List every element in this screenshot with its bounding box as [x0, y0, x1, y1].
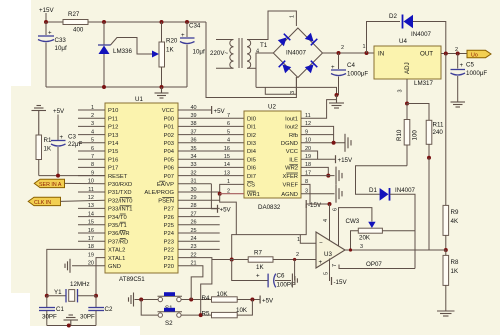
bottom-left white margin	[0, 326, 140, 335]
svg-text:P06: P06	[164, 166, 174, 172]
svg-text:30: 30	[190, 187, 196, 193]
svg-text:IN4007: IN4007	[395, 187, 416, 194]
svg-text:25: 25	[190, 228, 196, 234]
resistor R27	[63, 11, 88, 34]
svg-text:RESET: RESET	[108, 174, 128, 180]
svg-text:GND: GND	[108, 264, 121, 270]
svg-text:16: 16	[224, 146, 230, 152]
svg-text:P10: P10	[108, 108, 118, 114]
svg-text:P25: P25	[164, 223, 174, 229]
svg-text:24: 24	[190, 236, 196, 242]
svg-text:7: 7	[332, 264, 338, 267]
U1 right pin stubs and numbers	[178, 105, 244, 267]
wire +V drop to bridge bottom	[206, 22, 296, 98]
svg-text:C34: C34	[189, 23, 201, 30]
svg-text:6: 6	[227, 121, 230, 127]
svg-text:1: 1	[91, 105, 94, 111]
svg-text:32: 32	[190, 170, 196, 176]
svg-text:-15V: -15V	[334, 279, 348, 286]
junction LM336 top	[102, 20, 106, 24]
ground above R1 (inverted)	[32, 106, 47, 136]
svg-text:4: 4	[91, 129, 94, 135]
svg-text:1: 1	[290, 15, 296, 18]
svg-text:27: 27	[190, 211, 196, 217]
diode upper-right	[305, 33, 318, 46]
svg-text:R11: R11	[433, 122, 444, 129]
svg-text:30PF: 30PF	[80, 314, 95, 321]
svg-text:10μf: 10μf	[55, 45, 67, 52]
svg-text:+: +	[460, 62, 464, 69]
ground rotated left of S1	[129, 293, 134, 307]
wire WR2 down to XFER	[301, 167, 328, 175]
U2 right pin names and numbers	[281, 113, 311, 198]
svg-text:7: 7	[227, 113, 230, 119]
svg-text:17: 17	[88, 236, 94, 242]
wire bottom rail of reference section	[46, 86, 187, 88]
svg-text:R7: R7	[254, 250, 262, 257]
resistor R9	[443, 205, 459, 252]
svg-text:12MHz: 12MHz	[70, 281, 90, 288]
svg-text:P20: P20	[164, 264, 174, 270]
svg-text:35: 35	[190, 146, 196, 152]
svg-text:Y1: Y1	[54, 289, 62, 296]
svg-text:13: 13	[88, 203, 94, 209]
svg-text:DI2: DI2	[247, 133, 256, 139]
svg-text:1K: 1K	[256, 264, 264, 271]
power +5V port at pin 40	[212, 106, 226, 115]
svg-text:DI0: DI0	[247, 116, 256, 122]
svg-text:5: 5	[227, 129, 230, 135]
resistor R11	[407, 104, 444, 251]
switch S2	[158, 308, 183, 327]
svg-text:20K: 20K	[359, 235, 371, 242]
wire bridge plus to LM317	[323, 52, 375, 54]
svg-text:DI5: DI5	[247, 157, 256, 163]
svg-text:WR1: WR1	[247, 192, 260, 198]
svg-text:P27: P27	[164, 207, 174, 213]
svg-text:Iout1: Iout1	[285, 116, 298, 122]
svg-text:14: 14	[224, 162, 230, 168]
svg-text:P37/RD: P37/RD	[108, 239, 128, 245]
ground at crystal rail	[64, 315, 79, 326]
resistor R8	[443, 250, 459, 311]
svg-text:PSEN: PSEN	[158, 198, 174, 204]
svg-text:−: −	[319, 240, 323, 247]
capacitor C3	[51, 134, 82, 176]
svg-text:P00: P00	[164, 116, 174, 122]
svg-text:2: 2	[341, 45, 344, 51]
wire ground to S1	[135, 299, 159, 301]
diode lower-right	[305, 61, 318, 74]
svg-text:U2: U2	[268, 104, 276, 111]
svg-text:23: 23	[190, 244, 196, 250]
svg-text:P32/INT0: P32/INT0	[108, 198, 133, 204]
svg-text:+5V: +5V	[220, 207, 232, 214]
svg-text:R27: R27	[68, 11, 80, 18]
svg-text:1K: 1K	[451, 268, 459, 275]
port Uo flag	[467, 50, 491, 58]
svg-text:P31/TXD: P31/TXD	[108, 190, 132, 196]
svg-text:P13: P13	[108, 133, 118, 139]
potentiometer CW3	[346, 218, 416, 250]
svg-text:ILE: ILE	[289, 157, 298, 163]
svg-text:P03: P03	[164, 141, 174, 147]
svg-text:C1: C1	[56, 306, 64, 313]
svg-text:3: 3	[398, 89, 404, 92]
svg-text:XTAL1: XTAL1	[108, 256, 125, 262]
regulator U4 LM317	[374, 38, 441, 93]
wire ILE to +15V port	[301, 155, 353, 164]
svg-text:DI6: DI6	[247, 166, 256, 172]
svg-text:P35/T1: P35/T1	[108, 223, 127, 229]
long output rail on right	[445, 54, 447, 206]
svg-text:R5: R5	[202, 311, 210, 318]
wire op-amp pin1 stub up	[300, 235, 316, 244]
junction C34 top	[185, 20, 189, 24]
svg-text:P33/INT1: P33/INT1	[108, 207, 133, 213]
capacitor C6	[232, 260, 295, 289]
svg-text:D2: D2	[389, 13, 397, 20]
diode lower-left	[279, 61, 292, 74]
svg-text:U4: U4	[399, 38, 407, 45]
svg-text:C3: C3	[68, 134, 76, 141]
svg-text:OP07: OP07	[366, 261, 382, 268]
wire AGND to ground	[301, 193, 335, 195]
svg-text:8: 8	[91, 162, 94, 168]
svg-text:DI1: DI1	[247, 125, 256, 131]
resistor R4	[202, 291, 261, 302]
svg-text:DGND: DGND	[281, 141, 298, 147]
svg-text:+: +	[256, 273, 260, 280]
wire VCC to +15V	[301, 151, 318, 159]
svg-text:R9: R9	[451, 209, 459, 216]
capacitor C33	[38, 22, 67, 87]
switch S1	[158, 292, 183, 312]
svg-text:5: 5	[91, 138, 94, 144]
wire Iout2 down	[301, 126, 334, 142]
wire crystal ground rail	[47, 325, 96, 327]
wire EA to +5V	[211, 184, 231, 214]
op-amp U3 OP07	[296, 232, 382, 268]
svg-text:1K: 1K	[44, 146, 52, 153]
svg-text:19: 19	[88, 252, 94, 258]
svg-text:XFER: XFER	[283, 174, 298, 180]
microcontroller U1 AT89C51	[105, 96, 178, 283]
svg-text:IN4007: IN4007	[286, 50, 307, 57]
power +15V port	[39, 7, 54, 22]
wire P21 to S1	[178, 258, 212, 316]
crystal Y1	[45, 281, 98, 302]
svg-text:3: 3	[290, 91, 296, 94]
U1 left pin names	[108, 108, 133, 270]
svg-text:Rfb: Rfb	[289, 133, 298, 139]
transformer T1	[210, 38, 268, 68]
port CLK IN	[28, 197, 105, 206]
svg-text:P07: P07	[164, 174, 174, 180]
svg-text:P23: P23	[164, 239, 174, 245]
node CS/WR1 junction	[218, 192, 222, 196]
svg-text:U3: U3	[324, 251, 332, 258]
svg-text:P02: P02	[164, 133, 174, 139]
ground rotated at C6	[292, 274, 297, 288]
potentiometer R20	[159, 22, 178, 87]
svg-text:2: 2	[91, 113, 94, 119]
wire GND pin to rotated ground	[72, 265, 105, 267]
ground node under C4	[335, 93, 339, 97]
svg-text:220V~: 220V~	[210, 50, 228, 57]
svg-text:15: 15	[224, 154, 230, 160]
svg-text:P22: P22	[164, 248, 174, 254]
svg-text:WR2: WR2	[285, 166, 298, 172]
svg-text:S2: S2	[165, 320, 173, 327]
svg-text:10K: 10K	[236, 307, 248, 314]
wire op-amp pin 6 to CW3 wiper	[339, 208, 372, 246]
svg-text:P30/RXD: P30/RXD	[108, 182, 132, 188]
capacitor C4	[331, 53, 368, 95]
svg-text:6: 6	[333, 208, 339, 211]
svg-text:VREF: VREF	[283, 183, 299, 189]
wire XTAL2	[47, 249, 105, 295]
svg-text:T1: T1	[260, 42, 268, 49]
svg-text:100: 100	[412, 130, 419, 141]
svg-text:EA/VP: EA/VP	[157, 182, 174, 188]
svg-text:2: 2	[296, 252, 299, 258]
svg-text:28: 28	[190, 203, 196, 209]
svg-text:13: 13	[224, 170, 230, 176]
resistor R1	[36, 135, 52, 176]
wire reset node	[39, 175, 105, 177]
svg-text:P12: P12	[108, 125, 118, 131]
svg-text:D1: D1	[369, 187, 377, 194]
diode upper-left	[278, 34, 291, 47]
svg-text:33: 33	[190, 162, 196, 168]
svg-text:+15V: +15V	[338, 157, 353, 164]
svg-text:CW3: CW3	[346, 218, 360, 225]
svg-text:ADJ: ADJ	[404, 62, 411, 74]
svg-text:12: 12	[88, 195, 94, 201]
capacitor C2	[80, 296, 113, 326]
svg-text:CS: CS	[247, 183, 255, 189]
ground rotated at DGND	[345, 134, 351, 152]
svg-text:LM317: LM317	[414, 80, 433, 87]
svg-text:11: 11	[88, 187, 94, 193]
svg-text:+5V: +5V	[262, 298, 274, 305]
svg-text:38: 38	[190, 121, 196, 127]
ground under R20 rail	[155, 87, 169, 98]
node bridge minus staircase	[265, 77, 296, 94]
svg-text:3: 3	[360, 244, 363, 250]
svg-text:26: 26	[190, 220, 196, 226]
resistor R10	[396, 104, 419, 166]
svg-text:4: 4	[323, 219, 329, 222]
svg-text:DI4: DI4	[247, 149, 257, 155]
wire Rfb	[301, 134, 334, 136]
port SER IN A	[34, 179, 105, 188]
wire XFER to ground	[301, 175, 335, 177]
svg-text:P16: P16	[108, 157, 118, 163]
ground under R8	[437, 311, 455, 316]
wire LM317 out	[441, 53, 467, 55]
svg-text:Iout2: Iout2	[285, 125, 298, 131]
svg-text:1: 1	[363, 44, 366, 50]
svg-text:6: 6	[91, 146, 94, 152]
svg-text:1000μF: 1000μF	[347, 71, 368, 78]
svg-text:DA0832: DA0832	[258, 204, 281, 211]
wire -15V loop to R7 node	[232, 204, 307, 260]
svg-text:U1: U1	[135, 96, 143, 103]
svg-text:9: 9	[91, 170, 94, 176]
DAC U2 DA0832	[244, 104, 301, 212]
svg-text:R1: R1	[44, 137, 52, 144]
wire CS	[220, 184, 244, 193]
wire top rail	[46, 21, 206, 23]
svg-text:1000μF: 1000μF	[466, 70, 487, 77]
wire op-amp output	[345, 249, 446, 251]
svg-text:IN: IN	[378, 51, 384, 58]
svg-text:SER IN A: SER IN A	[39, 182, 62, 188]
svg-text:VCC: VCC	[162, 108, 174, 114]
svg-text:VCC: VCC	[286, 149, 298, 155]
diode D1	[356, 166, 416, 269]
svg-text:ALE/PROG: ALE/PROG	[144, 190, 174, 196]
svg-text:P36/WR: P36/WR	[108, 231, 130, 237]
svg-text:P11: P11	[108, 116, 118, 122]
svg-text:40: 40	[190, 105, 196, 111]
resistor R5	[202, 300, 253, 318]
power +5V port at R4	[260, 296, 274, 305]
svg-text:R10: R10	[396, 129, 403, 141]
svg-text:+5V: +5V	[53, 108, 65, 115]
wire secondary bottom	[247, 67, 256, 69]
svg-text:OUT: OUT	[420, 51, 433, 58]
svg-text:DI7: DI7	[247, 174, 256, 180]
svg-text:7: 7	[91, 154, 94, 160]
svg-text:LM336: LM336	[113, 48, 132, 55]
wire VREF down to -15V	[301, 184, 310, 204]
U1 left pin stubs and numbers	[78, 105, 105, 267]
svg-text:34: 34	[190, 154, 196, 160]
capacitor C34	[180, 22, 205, 87]
svg-text:AGND: AGND	[281, 192, 298, 198]
power +5V port at C3	[53, 108, 65, 140]
capacitor C1	[39, 296, 64, 326]
svg-text:C33: C33	[55, 37, 67, 44]
svg-text:R8: R8	[451, 259, 459, 266]
wire WR1 (reddish)	[220, 193, 244, 195]
U1 right pin names	[144, 108, 174, 270]
power -15V port and wire to op-amp V-	[306, 200, 331, 209]
svg-text:AT89C51: AT89C51	[119, 276, 145, 283]
svg-text:+5V: +5V	[214, 108, 226, 115]
svg-text:10μf: 10μf	[193, 49, 205, 56]
wire S2 to R5	[181, 314, 211, 316]
svg-text:240: 240	[433, 129, 444, 136]
wire Iout1 to ground	[301, 100, 337, 119]
svg-text:30PF: 30PF	[42, 314, 57, 321]
svg-text:P34/T0: P34/T0	[108, 215, 127, 221]
wire DGND to ground	[301, 142, 345, 144]
svg-text:R4: R4	[202, 295, 210, 302]
resistor R7	[212, 250, 316, 281]
svg-text:14: 14	[88, 211, 94, 217]
wire ground rail under bridge	[256, 87, 337, 95]
svg-text:3: 3	[91, 121, 94, 127]
svg-text:P24: P24	[164, 231, 175, 237]
svg-text:-15V: -15V	[308, 202, 322, 209]
svg-text:P26: P26	[164, 215, 174, 221]
svg-text:16: 16	[88, 228, 94, 234]
wire XTAL1	[96, 258, 105, 296]
svg-text:39: 39	[190, 113, 196, 119]
svg-text:C6: C6	[277, 273, 285, 280]
capacitor C5	[451, 54, 488, 103]
wire S2 branch	[141, 300, 158, 316]
svg-text:1: 1	[297, 237, 300, 243]
node A junction	[44, 20, 48, 24]
svg-text:400: 400	[73, 27, 84, 34]
svg-text:1K: 1K	[166, 47, 174, 54]
svg-text:P14: P14	[108, 141, 119, 147]
bridge rectifier D IN4007	[273, 28, 322, 78]
svg-text:P17: P17	[108, 166, 118, 172]
svg-text:+: +	[319, 259, 323, 266]
svg-text:Uo: Uo	[471, 52, 478, 58]
svg-text:5: 5	[324, 272, 330, 275]
ground under C5	[451, 102, 466, 107]
svg-text:22μF: 22μF	[68, 141, 82, 148]
diode D2	[367, 13, 446, 54]
wire secondary top to bridge	[247, 11, 296, 40]
wire S1 to R4	[181, 299, 211, 301]
wire P20 to S2	[178, 266, 203, 300]
wire ADJ stem	[406, 79, 408, 104]
svg-text:4K: 4K	[451, 218, 459, 225]
svg-text:DI3: DI3	[247, 141, 256, 147]
junction R20 top	[160, 20, 164, 24]
svg-text:C2: C2	[105, 306, 113, 313]
svg-text:29: 29	[190, 195, 196, 201]
svg-text:10K: 10K	[217, 291, 229, 298]
svg-text:C5: C5	[466, 62, 474, 69]
svg-text:C4: C4	[347, 62, 355, 69]
svg-text:P15: P15	[108, 149, 118, 155]
U2 left pin names and numbers	[224, 113, 260, 198]
svg-text:R20: R20	[166, 38, 178, 45]
left white margin	[0, 0, 31, 335]
svg-text:XTAL2: XTAL2	[108, 248, 125, 254]
svg-text:37: 37	[190, 129, 196, 135]
svg-text:15: 15	[88, 220, 94, 226]
svg-text:P04: P04	[164, 149, 175, 155]
svg-text:10: 10	[88, 179, 94, 185]
wire CS node to -15V loop	[220, 194, 237, 235]
wire op-amp V- pin 4	[329, 204, 331, 241]
svg-text:CLK IN: CLK IN	[34, 200, 51, 206]
wire op-amp pin 5 to -15V	[324, 259, 348, 287]
svg-text:36: 36	[190, 138, 196, 144]
svg-text:4: 4	[227, 138, 230, 144]
svg-text:IN4007: IN4007	[411, 31, 432, 38]
diode LM336	[98, 22, 159, 87]
svg-text:P05: P05	[164, 157, 174, 163]
svg-text:31: 31	[190, 179, 196, 185]
svg-text:+15V: +15V	[39, 7, 54, 14]
svg-text:P01: P01	[164, 125, 174, 131]
svg-text:P21: P21	[164, 256, 174, 262]
svg-text:2: 2	[455, 47, 458, 53]
wire op-amp pin 7 to feedback rail	[339, 265, 415, 269]
